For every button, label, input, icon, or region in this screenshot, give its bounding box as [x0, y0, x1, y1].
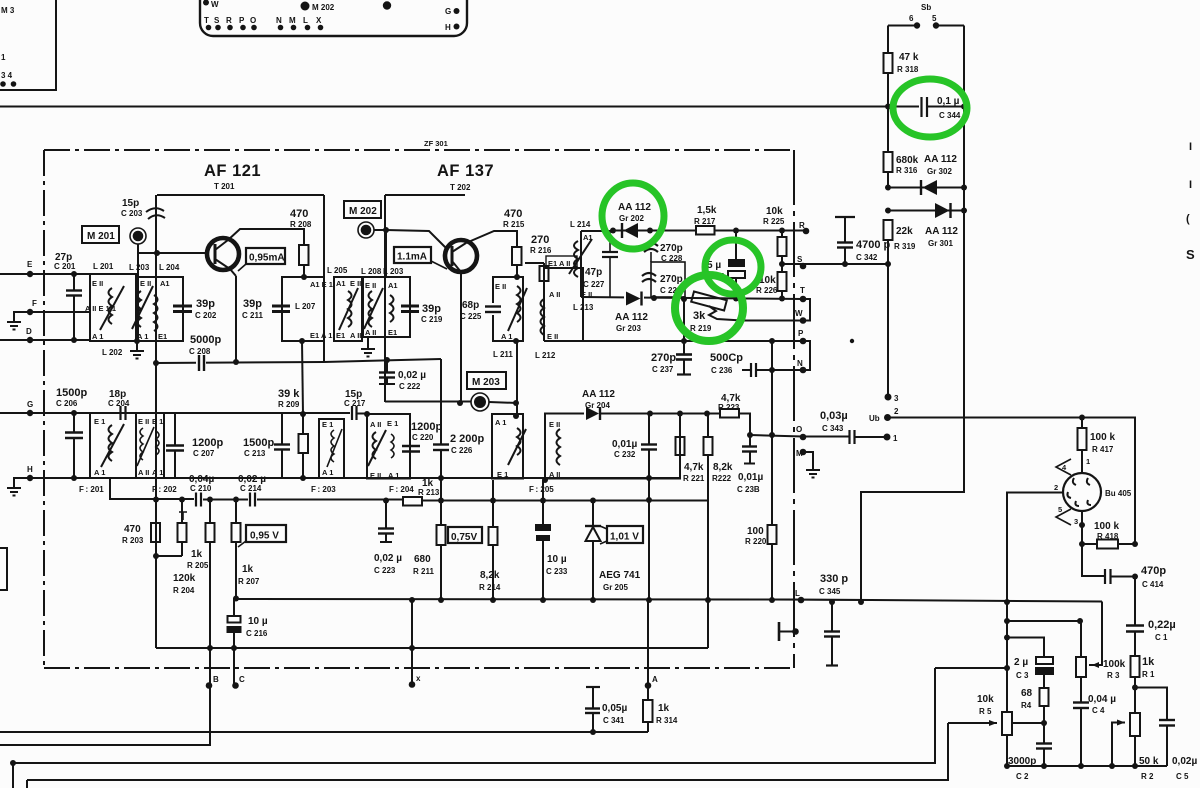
svg-text:L 214: L 214	[570, 220, 591, 229]
svg-text:N: N	[276, 16, 282, 25]
wire T line y298	[581, 297, 803, 299]
svg-text:AEG 741: AEG 741	[599, 570, 641, 581]
resistor R215	[512, 247, 522, 265]
wire M202 to AF137 base	[374, 230, 446, 248]
svg-text:1k: 1k	[242, 564, 254, 575]
svg-text:R 203: R 203	[122, 536, 144, 545]
svg-text:100 k: 100 k	[1090, 432, 1115, 443]
transistor AF121 emitter wire	[235, 276, 237, 362]
svg-text:L 212: L 212	[535, 351, 556, 360]
transistor AF137 collector wire	[466, 231, 517, 247]
svg-text:A II: A II	[549, 470, 560, 479]
measuring point box M 203	[467, 372, 506, 389]
svg-text:C 343: C 343	[822, 424, 844, 433]
svg-text:C 210: C 210	[190, 484, 212, 493]
svg-text:1500p: 1500p	[243, 437, 274, 449]
svg-text:2: 2	[1054, 483, 1058, 492]
svg-text:Bu 405: Bu 405	[1105, 489, 1132, 498]
svg-text:C 219: C 219	[421, 315, 443, 324]
tank L211 box	[493, 277, 523, 341]
svg-text:C 414: C 414	[1142, 580, 1164, 589]
green marker circle Gr202	[602, 183, 664, 249]
svg-text:R 220: R 220	[745, 537, 767, 546]
panel pin M202	[301, 2, 310, 11]
svg-text:47p: 47p	[585, 267, 602, 278]
svg-text:C 217: C 217	[344, 399, 366, 408]
frame E1 AII	[546, 256, 577, 268]
svg-text:R 209: R 209	[278, 400, 300, 409]
svg-text:3 4: 3 4	[1, 71, 13, 80]
svg-text:0,95 V: 0,95 V	[250, 531, 279, 542]
svg-text:68p: 68p	[462, 300, 479, 311]
AGC bus y499	[110, 478, 708, 501]
tank L212 box	[544, 268, 583, 341]
svg-text:R 319: R 319	[894, 242, 916, 251]
svg-text:E II: E II	[549, 420, 560, 429]
inner screen box AF121 stage	[157, 194, 324, 196]
svg-text:C 5: C 5	[1176, 772, 1189, 781]
svg-text:A 1: A 1	[322, 468, 333, 477]
svg-text:T 201: T 201	[214, 182, 235, 191]
label box 0,95mA	[246, 248, 285, 264]
IF transformer Fi203 box	[319, 419, 344, 478]
wire right branch from Sb5	[861, 26, 964, 603]
resistor R208	[299, 245, 309, 265]
resistor R225	[778, 237, 787, 256]
svg-text:S: S	[1186, 247, 1195, 262]
svg-text:C 3: C 3	[1016, 671, 1029, 680]
svg-text:L 208: L 208	[361, 267, 382, 276]
svg-text:Gr 202: Gr 202	[619, 214, 644, 223]
tank L205 coil	[348, 291, 352, 327]
tank L208 ground	[367, 337, 369, 349]
svg-text:C 345: C 345	[819, 587, 841, 596]
svg-text:AA 112: AA 112	[924, 154, 957, 165]
svg-text:A 1: A 1	[501, 332, 512, 341]
label box M 202	[344, 201, 381, 218]
label box 0,95V	[246, 525, 286, 542]
svg-text:E II: E II	[92, 279, 103, 288]
electrolytic C3	[1036, 657, 1053, 664]
transistor AF137	[445, 240, 477, 272]
svg-text:C 341: C 341	[603, 716, 625, 725]
svg-text:C 222: C 222	[399, 382, 421, 391]
resistor R319	[884, 220, 893, 240]
wire terminal G y413	[0, 412, 120, 414]
svg-text:T: T	[204, 16, 209, 25]
svg-text:F: F	[32, 299, 37, 308]
svg-text:1k: 1k	[191, 549, 203, 560]
wire terminal E	[0, 273, 90, 275]
wire O line y436	[750, 435, 849, 437]
svg-text:L 203: L 203	[383, 267, 404, 276]
svg-text:10 µ: 10 µ	[547, 554, 567, 565]
resistor R221	[676, 437, 685, 455]
svg-text:0,75V: 0,75V	[451, 532, 477, 543]
wire bottom rail y763	[13, 668, 935, 763]
svg-text:4700 p: 4700 p	[856, 239, 891, 251]
svg-text:X: X	[316, 16, 322, 25]
green marker circle C234	[705, 240, 761, 294]
svg-text:T 202: T 202	[450, 183, 471, 192]
svg-text:G: G	[445, 7, 451, 16]
svg-text:F : 202: F : 202	[152, 485, 177, 494]
svg-text:R 215: R 215	[503, 220, 525, 229]
svg-text:C 2: C 2	[1016, 772, 1029, 781]
svg-text:A 1: A 1	[388, 471, 399, 480]
resistor R316	[887, 107, 889, 152]
potentiometer R219 3k	[691, 292, 727, 311]
wire R203-R205 bottoms	[156, 542, 182, 648]
svg-text:C 23B: C 23B	[737, 485, 760, 494]
potentiometer R2	[1130, 713, 1140, 736]
svg-text:A II: A II	[350, 331, 361, 340]
wire detector out y416	[601, 413, 750, 415]
zener diode Gr205 AEG741	[592, 500, 594, 526]
svg-text:(: (	[1186, 213, 1190, 225]
svg-text:L: L	[795, 589, 800, 598]
svg-text:39p: 39p	[422, 303, 441, 315]
terminal B	[206, 682, 213, 689]
terminal A	[645, 682, 652, 689]
svg-text:1200p: 1200p	[192, 437, 223, 449]
resistor R209	[299, 434, 309, 453]
svg-text:A 1: A 1	[92, 332, 103, 341]
wire M201 to base	[137, 244, 139, 277]
resistor R203	[151, 523, 160, 542]
svg-text:C 204: C 204	[108, 399, 130, 408]
wire 5000p line y363	[156, 362, 324, 363]
svg-text:L 207: L 207	[295, 302, 316, 311]
svg-text:1: 1	[1, 53, 6, 62]
svg-text:R 219: R 219	[690, 324, 712, 333]
terminal L	[798, 597, 805, 604]
svg-text:O: O	[796, 425, 802, 434]
svg-text:0,02µ: 0,02µ	[1172, 756, 1197, 767]
headphone jack	[778, 622, 781, 641]
svg-text:M 202: M 202	[349, 206, 377, 217]
wire A drop	[647, 600, 649, 685]
electrolytic C233	[542, 480, 544, 524]
dash-dot shield box	[44, 150, 794, 668]
svg-text:C 213: C 213	[244, 449, 266, 458]
transistor AF137 emitter wire	[460, 272, 462, 403]
svg-text:E 1: E 1	[94, 417, 105, 426]
label box 1,01V	[607, 526, 643, 543]
svg-text:R 211: R 211	[413, 567, 434, 576]
capacitor C2	[1043, 723, 1045, 743]
terminal x	[409, 681, 416, 688]
left edge stub box	[0, 548, 7, 590]
transistor AF121 collector wire	[228, 229, 304, 245]
svg-text:O: O	[250, 16, 256, 25]
svg-text:R 5: R 5	[979, 707, 992, 716]
svg-text:C 206: C 206	[56, 399, 78, 408]
capacitor C236 in series to N	[742, 369, 751, 371]
svg-text:680k: 680k	[896, 155, 919, 166]
svg-text:270: 270	[531, 234, 549, 246]
svg-text:ZF 301: ZF 301	[424, 139, 448, 148]
svg-text:5: 5	[1058, 505, 1062, 514]
wire Ub rail	[890, 418, 1135, 545]
svg-text:1,01 V: 1,01 V	[610, 532, 639, 543]
svg-text:1200p: 1200p	[411, 421, 442, 433]
svg-text:S: S	[214, 16, 220, 25]
capacitor C344 in series on main bus	[920, 97, 922, 117]
svg-text:2: 2	[894, 407, 899, 416]
svg-text:R4: R4	[1021, 701, 1032, 710]
svg-text:A 1: A 1	[137, 332, 148, 341]
svg-text:C 201: C 201	[54, 262, 76, 271]
svg-text:10k: 10k	[766, 206, 783, 217]
svg-text:R 207: R 207	[238, 577, 260, 586]
svg-text:E 1: E 1	[497, 470, 508, 479]
svg-text:A1: A1	[336, 279, 346, 288]
potentiometer R5	[1002, 712, 1012, 735]
svg-text:N: N	[797, 359, 803, 368]
tank L205 box	[334, 277, 362, 341]
capacitor C222	[386, 360, 388, 372]
svg-text:AA 112: AA 112	[615, 312, 648, 323]
resistor R213 in series on AGC bus	[403, 497, 422, 506]
wire R3 wiper feed	[1089, 602, 1102, 666]
svg-text:3k: 3k	[693, 310, 706, 322]
terminal N bracket	[800, 367, 807, 374]
svg-text:A 1: A 1	[495, 418, 506, 427]
svg-text:R222: R222	[712, 474, 732, 483]
svg-text:E1 A 1: E1 A 1	[310, 331, 332, 340]
svg-text:C 203: C 203	[121, 209, 143, 218]
wire R2 wiper	[1112, 723, 1125, 767]
green marker circle C344	[893, 79, 967, 137]
wire R5 wiper	[948, 722, 997, 724]
svg-text:L 202: L 202	[102, 348, 123, 357]
svg-text:E II: E II	[138, 417, 149, 426]
wire L207 to R209	[302, 341, 303, 414]
svg-text:R 205: R 205	[187, 561, 209, 570]
svg-text:G: G	[27, 400, 33, 409]
svg-text:R 216: R 216	[530, 246, 552, 255]
svg-text:E II: E II	[370, 471, 381, 480]
diode Gr203 AA112	[624, 291, 644, 306]
svg-text:F : 201: F : 201	[79, 485, 104, 494]
svg-text:R: R	[226, 16, 232, 25]
wire output bus y766	[1007, 765, 1167, 767]
svg-text:A II: A II	[370, 420, 381, 429]
svg-text:1k: 1k	[1142, 656, 1155, 668]
wire bottom rail y780	[27, 723, 948, 780]
capacitor C223	[385, 500, 387, 528]
resistor R216	[540, 266, 549, 281]
svg-text:C 344: C 344	[939, 111, 961, 120]
svg-text:R 214: R 214	[479, 583, 501, 592]
svg-text:5000p: 5000p	[190, 334, 221, 346]
svg-text:1: 1	[893, 434, 898, 443]
capacitor C229	[642, 273, 656, 276]
capacitor C220	[402, 445, 420, 448]
svg-text:0,05µ: 0,05µ	[602, 703, 627, 714]
wire M202 down to tank	[385, 230, 387, 277]
svg-text:39p: 39p	[196, 298, 215, 310]
resistor R418	[1082, 543, 1097, 545]
wire terminal F with ground	[14, 312, 90, 322]
capacitor C228	[644, 243, 658, 246]
svg-text:270p: 270p	[651, 352, 676, 364]
svg-text:E: E	[27, 260, 33, 269]
resistor R417	[1078, 428, 1087, 450]
wire M203 to L211 column	[489, 402, 517, 403]
wire y360 to C226	[324, 359, 441, 362]
wire terminal H with ground	[14, 478, 681, 488]
svg-text:H: H	[27, 465, 33, 474]
terminal 2 Ub	[884, 414, 891, 421]
svg-text:500Cp: 500Cp	[710, 352, 743, 364]
svg-text:F : 205: F : 205	[529, 485, 554, 494]
svg-text:M 202: M 202	[312, 3, 335, 12]
capacitor C5	[1159, 719, 1175, 721]
svg-text:R 208: R 208	[290, 220, 312, 229]
svg-text:AF 137: AF 137	[437, 162, 494, 180]
svg-text:68: 68	[1021, 688, 1033, 699]
label box 0,75V	[448, 527, 482, 543]
capacitor C208	[196, 358, 206, 367]
terminal M with ground	[800, 449, 807, 456]
svg-text:330 p: 330 p	[820, 573, 848, 585]
svg-text:R 417: R 417	[1092, 445, 1114, 454]
terminal C	[232, 682, 239, 689]
svg-text:C 237: C 237	[652, 365, 674, 374]
measuring point M201 circle	[130, 228, 146, 244]
resistor R314	[643, 700, 653, 722]
svg-text:C 227: C 227	[583, 280, 605, 289]
svg-text:T: T	[800, 286, 805, 295]
capacitor C214 in series	[249, 493, 251, 507]
svg-text:x: x	[416, 674, 421, 683]
diode Gr302 AA112	[888, 187, 964, 189]
svg-text:E1: E1	[336, 331, 345, 340]
capacitor C341	[586, 686, 600, 688]
electrolytic C216	[233, 596, 239, 602]
box C229	[651, 262, 685, 297]
svg-text:1: 1	[1086, 457, 1090, 466]
potentiometer R3	[1076, 657, 1086, 677]
capacitor C225	[487, 303, 499, 315]
resistor R207	[232, 523, 241, 542]
svg-text:C 1: C 1	[1155, 633, 1168, 642]
svg-text:100: 100	[747, 526, 764, 537]
svg-text:8,2k: 8,2k	[480, 570, 500, 581]
svg-text:AA 112: AA 112	[618, 202, 651, 213]
wire base AF121	[138, 252, 207, 254]
measuring point M202 circle	[358, 222, 374, 238]
wire W-N feed column	[771, 341, 773, 435]
tank L214 coil variable	[574, 241, 578, 277]
svg-text:Sb: Sb	[921, 3, 931, 12]
valve Bu405	[1063, 473, 1101, 511]
terminal R	[733, 228, 739, 234]
terminal 3	[885, 394, 892, 401]
capacitor C227	[609, 231, 611, 252]
IF transformer Fi205 box	[545, 414, 680, 479]
capacitor C342	[835, 216, 855, 218]
svg-text:D: D	[26, 327, 32, 336]
resistor R211 column	[438, 498, 444, 504]
resistor R4	[1040, 688, 1049, 706]
valve pin 2 wire	[1007, 493, 1063, 713]
wire x drop	[411, 600, 413, 684]
capacitor C4	[1073, 701, 1089, 703]
svg-text:0,01µ: 0,01µ	[612, 439, 637, 450]
wire terminal D	[0, 339, 90, 341]
capacitor C1	[1126, 624, 1144, 627]
tank L208 coil variable	[369, 291, 373, 327]
svg-text:P: P	[239, 16, 245, 25]
svg-text:S: S	[797, 255, 803, 264]
svg-text:C 232: C 232	[614, 450, 636, 459]
svg-text:L 203: L 203	[129, 263, 150, 272]
svg-text:E 1: E 1	[322, 420, 333, 429]
terminal T	[800, 296, 807, 303]
tank L208 L209 box	[363, 277, 410, 337]
svg-text:R 226: R 226	[756, 286, 778, 295]
svg-text:A 1: A 1	[152, 468, 163, 477]
wire main lower bus y600	[236, 599, 1102, 602]
wire bottom y732	[0, 731, 648, 733]
svg-text:L 205: L 205	[327, 266, 348, 275]
svg-text:C 223: C 223	[374, 566, 396, 575]
svg-text:R 418: R 418	[1097, 532, 1119, 541]
svg-text:R 2: R 2	[1141, 772, 1154, 781]
capacitor C219	[401, 305, 419, 308]
wire y621 link	[1007, 620, 1080, 622]
svg-text:AA 112: AA 112	[582, 389, 615, 400]
svg-text:C 220: C 220	[412, 433, 434, 442]
label box 1.1mA	[394, 247, 431, 263]
capacitor C210 in series	[195, 493, 197, 507]
capacitor C202	[173, 305, 192, 308]
resistor R205	[178, 523, 187, 542]
svg-text:3: 3	[894, 394, 899, 403]
svg-text:R 3: R 3	[1107, 671, 1120, 680]
tank L212 column	[525, 262, 544, 264]
wire L211 column	[516, 341, 518, 416]
svg-text:A1: A1	[160, 279, 170, 288]
capacitor C232	[648, 414, 650, 445]
svg-text:0,03µ: 0,03µ	[820, 410, 848, 422]
capacitor C207	[174, 413, 176, 445]
svg-text:R 225: R 225	[763, 217, 785, 226]
resistor R318	[887, 26, 889, 54]
terminal 1	[884, 434, 891, 441]
svg-text:E1: E1	[158, 332, 167, 341]
svg-text:8,2k: 8,2k	[713, 462, 733, 473]
svg-text:47 k: 47 k	[899, 52, 919, 63]
capacitor C206	[73, 413, 75, 432]
svg-text:15p: 15p	[122, 198, 139, 209]
svg-text:A1 E 1: A1 E 1	[310, 280, 333, 289]
resistor R222	[704, 437, 713, 455]
resistor R1	[1131, 656, 1140, 677]
capacitor C213	[281, 413, 283, 444]
svg-text:470p: 470p	[1141, 565, 1166, 577]
svg-text:M: M	[796, 449, 803, 458]
resistor R226	[778, 272, 787, 291]
svg-text:R 1: R 1	[1142, 670, 1155, 679]
svg-text:A II: A II	[365, 328, 376, 337]
svg-text:1,5k: 1,5k	[697, 205, 717, 216]
svg-text:E 1: E 1	[387, 419, 398, 428]
svg-text:0,1 µ: 0,1 µ	[937, 96, 960, 107]
